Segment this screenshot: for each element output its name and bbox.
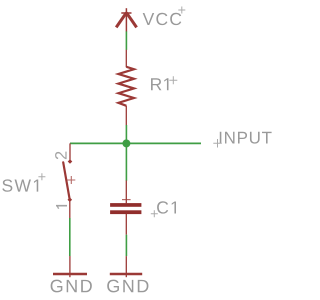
wire R1 to node: [125, 125, 127, 143]
switch SW1: [63, 143, 75, 218]
wire VCC to R1: [125, 31, 127, 50]
ground left: [53, 256, 87, 277]
label R1: [151, 76, 177, 90]
label GND right: [107, 280, 148, 293]
capacitor C1: [110, 181, 141, 235]
resistor R1: [118, 50, 134, 126]
label SW1: [2, 173, 45, 191]
wire node to INPUT: [70, 142, 201, 144]
pin number 2: [55, 152, 67, 160]
label VCC: [143, 7, 186, 26]
wire SW1 to GND: [69, 218, 71, 256]
wire C1 to GND: [125, 235, 127, 256]
ground right: [110, 256, 142, 277]
label INPUT: [213, 132, 271, 148]
pin number 1: [56, 205, 67, 209]
power VCC: [116, 8, 136, 31]
wire node to C1: [125, 143, 127, 180]
junction node: [122, 139, 130, 147]
label GND left: [51, 280, 92, 293]
label C1: [151, 201, 176, 217]
